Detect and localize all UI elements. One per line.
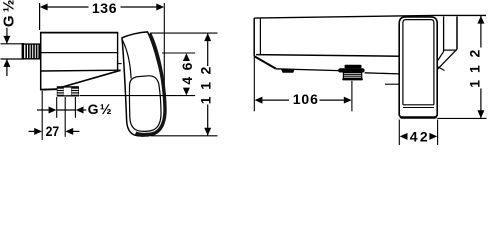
svg-text:136: 136	[92, 0, 117, 16]
svg-text:106: 106	[293, 91, 318, 107]
svg-text:27: 27	[46, 123, 60, 139]
svg-text:G ½: G ½	[0, 0, 17, 27]
svg-text:112: 112	[197, 67, 213, 105]
svg-text:112: 112	[466, 49, 482, 87]
svg-text:G ½: G ½	[88, 101, 112, 117]
